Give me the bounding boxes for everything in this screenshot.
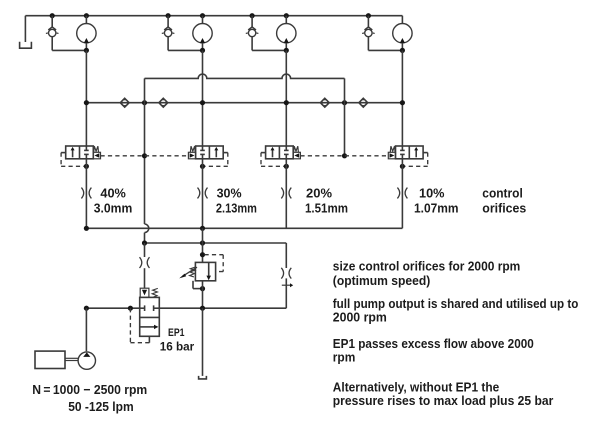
svg-text:16 bar: 16 bar <box>160 339 195 353</box>
svg-text:EP1: EP1 <box>168 327 185 339</box>
svg-text:N = 1000 − 2500 rpm: N = 1000 − 2500 rpm <box>32 382 147 397</box>
svg-text:20%: 20% <box>306 186 332 200</box>
svg-text:2000 rpm: 2000 rpm <box>333 309 387 324</box>
svg-text:(optimum speed): (optimum speed) <box>333 273 431 288</box>
svg-text:control: control <box>482 186 523 200</box>
svg-text:size control orifices for 2000: size control orifices for 2000 rpm <box>333 258 521 273</box>
svg-text:40%: 40% <box>100 186 126 200</box>
svg-text:1.51mm: 1.51mm <box>305 201 348 215</box>
svg-text:orifices: orifices <box>482 201 526 215</box>
svg-text:50 -125 lpm: 50 -125 lpm <box>68 399 134 414</box>
svg-text:1.07mm: 1.07mm <box>414 201 459 215</box>
svg-text:30%: 30% <box>217 186 242 200</box>
svg-text:10%: 10% <box>419 186 445 200</box>
svg-text:pressure rises to max load plu: pressure rises to max load plus 25 bar <box>333 393 554 408</box>
svg-text:2.13mm: 2.13mm <box>216 201 257 215</box>
svg-text:EP1 passes excess flow above 2: EP1 passes excess flow above 2000 <box>333 336 534 351</box>
svg-text:3.0mm: 3.0mm <box>94 201 133 215</box>
svg-text:rpm: rpm <box>333 349 356 364</box>
